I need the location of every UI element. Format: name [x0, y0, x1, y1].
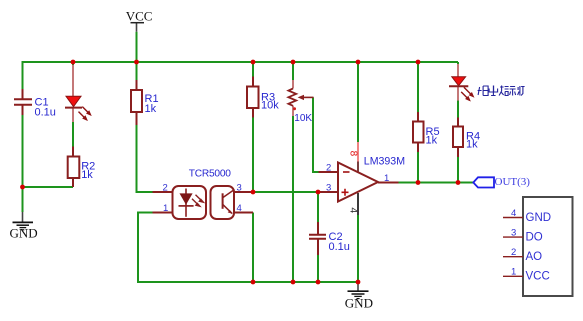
svg-text:VCC: VCC: [526, 271, 550, 283]
svg-text:OUT(3): OUT(3): [495, 176, 531, 188]
svg-text:1k: 1k: [145, 103, 157, 115]
svg-text:1: 1: [163, 203, 168, 214]
svg-text:2: 2: [511, 247, 516, 258]
svg-text:3: 3: [237, 182, 242, 193]
svg-text:2: 2: [163, 182, 168, 193]
svg-text:GND: GND: [526, 212, 552, 224]
svg-text:1k: 1k: [81, 169, 93, 181]
svg-text:0.1u: 0.1u: [35, 106, 56, 118]
svg-text:TCR5000: TCR5000: [189, 169, 231, 180]
svg-text:LM393M: LM393M: [364, 155, 405, 167]
svg-text:1k: 1k: [426, 134, 438, 146]
svg-text:10K: 10K: [294, 113, 312, 124]
svg-text:DO: DO: [526, 232, 543, 244]
svg-text:2: 2: [326, 162, 331, 173]
svg-text:3: 3: [326, 183, 331, 194]
svg-text:3: 3: [511, 227, 516, 238]
svg-text:1: 1: [384, 173, 389, 184]
svg-text:VCC: VCC: [126, 8, 153, 23]
svg-text:1: 1: [511, 267, 516, 278]
svg-text:1k: 1k: [466, 139, 478, 151]
svg-text:4: 4: [511, 208, 516, 219]
svg-text:10k: 10k: [261, 99, 279, 111]
svg-text:AO: AO: [526, 251, 543, 263]
svg-text:0.1u: 0.1u: [329, 241, 350, 253]
svg-text:GND: GND: [10, 226, 38, 241]
svg-text:8: 8: [347, 151, 358, 157]
svg-text:GND: GND: [345, 295, 373, 310]
svg-text:4: 4: [237, 203, 242, 214]
svg-text:4: 4: [347, 207, 359, 213]
